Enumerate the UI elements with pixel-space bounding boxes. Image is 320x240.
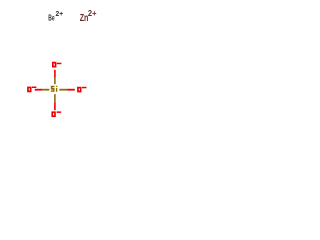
bond Si-bottom O, O half [54, 102, 56, 110]
bond Si-bottom O, Si half [54, 94, 56, 102]
atom Si center [51, 86, 58, 92]
atom O right (O-) [77, 87, 81, 93]
atom O bottom (O-) [51, 111, 55, 117]
charge minus of right O [82, 87, 87, 89]
bond Si-right O, O half [67, 89, 75, 91]
charge minus of top O [57, 63, 62, 64]
svg-text:Be: Be [48, 13, 55, 22]
charge minus of left O [32, 87, 37, 89]
svg-text:2+: 2+ [88, 9, 97, 18]
atom O left (O-) [27, 87, 31, 93]
charge minus of bottom O [57, 111, 62, 113]
bond top O-Si, Si half [54, 78, 56, 84]
bond left O-Si, O half [35, 89, 42, 91]
atom O top (O-) [52, 62, 56, 68]
bond left O-Si, Si half [42, 89, 49, 91]
bond Si-right O, Si half [59, 89, 67, 91]
bond top O-Si, O half [54, 70, 56, 78]
svg-text:2+: 2+ [56, 11, 64, 18]
